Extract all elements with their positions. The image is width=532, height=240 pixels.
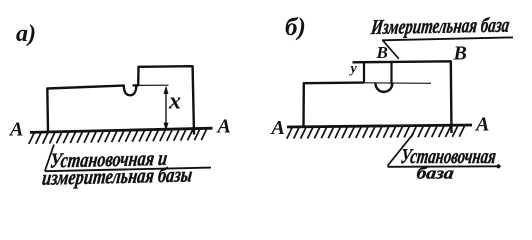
slot right edge (390, 62, 392, 85)
top annotation leader (b) (383, 40, 399, 59)
ground hatching (b) (287, 126, 465, 139)
svg-text:А: А (270, 117, 285, 139)
groove semicircle (b) (375, 83, 392, 91)
svg-text:x: x (168, 89, 181, 115)
block outline (a) (47, 66, 194, 133)
svg-text:В: В (376, 43, 388, 62)
bottom annotation (b): end dot (496, 164, 500, 168)
block outline (b): left edge and lower top surface (304, 83, 365, 126)
top annotation underline (b) (382, 37, 513, 40)
bottom annotation (b): underline (388, 165, 500, 168)
svg-text:а): а) (16, 21, 36, 47)
svg-text:Измерительная база: Измерительная база (369, 13, 511, 39)
ground hatching (a) (29, 129, 207, 144)
annotation (a): text line 1 (49, 146, 169, 173)
svg-text:А: А (474, 114, 489, 136)
svg-text:А: А (8, 119, 23, 141)
thin extension line (a) (134, 84, 169, 86)
dimension x arrow (164, 86, 169, 131)
inner thin line (groove level) (364, 82, 431, 85)
annotation (a): leader (45, 145, 54, 172)
svg-text:измерительная базы: измерительная базы (41, 162, 194, 189)
svg-text:у: у (349, 62, 358, 77)
annotation (a): underline (45, 168, 211, 172)
top annotation text (b) (369, 13, 511, 39)
annotation (a): text line 2 (41, 162, 194, 189)
svg-text:база: база (415, 164, 455, 183)
svg-text:б): б) (285, 14, 306, 41)
bottom annotation (b): text line 1 (399, 144, 497, 168)
ground line (a) (30, 128, 213, 132)
B-B measuring base line (353, 61, 452, 133)
slot left edge / y dimension line (363, 62, 365, 83)
bottom annotation (b): leader (388, 134, 414, 166)
svg-text:В: В (453, 43, 467, 65)
bottom annotation (b): text line 2 (415, 164, 455, 183)
svg-text:А: А (216, 116, 231, 138)
ground line (b) (287, 125, 472, 127)
